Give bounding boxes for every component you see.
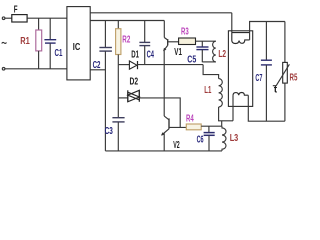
wire xyxy=(138,64,204,66)
wire node A xyxy=(118,64,129,66)
inductor L3 xyxy=(222,126,226,151)
resistor R4 xyxy=(186,124,201,130)
terminal input top xyxy=(2,17,5,20)
svg-text:R1: R1 xyxy=(20,36,30,47)
diode D2 diac xyxy=(128,90,140,102)
svg-text:D1: D1 xyxy=(131,49,139,60)
capacitor C4 xyxy=(139,21,150,65)
wire lamp bottom-left lead xyxy=(232,96,234,121)
svg-text:C6: C6 xyxy=(197,134,204,145)
thermistor R5 xyxy=(273,22,290,122)
capacitor C6 xyxy=(204,126,215,151)
wire C3 branch xyxy=(117,65,119,118)
svg-text:R4: R4 xyxy=(186,113,194,124)
svg-text:C1: C1 xyxy=(55,48,63,59)
wire rail1 top xyxy=(90,12,232,14)
wire xyxy=(201,125,222,127)
capacitor C7 xyxy=(261,22,272,122)
svg-text:L1: L1 xyxy=(204,85,211,96)
wire bottom rail xyxy=(105,150,222,152)
wire diac to V2 base xyxy=(139,98,180,128)
wire stair from node A to L1 xyxy=(203,65,219,79)
wire lamp bottom-right lead xyxy=(248,95,285,121)
svg-text:C7: C7 xyxy=(255,73,262,84)
resistor R1 xyxy=(36,18,42,69)
svg-text:L2: L2 xyxy=(218,49,226,60)
svg-text:L3: L3 xyxy=(230,133,239,144)
transistor Q1 V1 xyxy=(163,21,178,52)
lamp filament bottom xyxy=(233,93,248,96)
inductor L2 xyxy=(213,41,216,62)
svg-text:R2: R2 xyxy=(122,35,130,46)
wire xyxy=(5,68,67,70)
lamp tube xyxy=(228,31,252,107)
svg-text:F: F xyxy=(14,4,18,15)
inductor L1 xyxy=(219,79,223,107)
svg-text:C5: C5 xyxy=(187,55,196,66)
wire L1 bottom xyxy=(219,107,233,121)
lamp filament top xyxy=(232,33,250,44)
svg-text:C3: C3 xyxy=(105,126,114,137)
capacitor C3 xyxy=(112,118,124,151)
wire lamp top-right lead xyxy=(250,22,285,40)
wire xyxy=(196,40,216,42)
svg-text:D2: D2 xyxy=(130,77,139,88)
svg-text:R3: R3 xyxy=(181,26,189,37)
wire rail2 xyxy=(90,20,164,22)
svg-text:IC: IC xyxy=(73,42,81,53)
svg-text:R5: R5 xyxy=(290,73,298,84)
op-amp U1 : IC block xyxy=(67,7,90,80)
svg-text:V1: V1 xyxy=(174,47,182,58)
transistor Q2 V2 xyxy=(161,116,186,151)
fuse F xyxy=(12,15,27,22)
svg-text:V2: V2 xyxy=(173,140,180,151)
wire xyxy=(27,17,67,19)
wire bottom rail from IC xyxy=(90,69,105,71)
capacitor C1 xyxy=(44,18,56,69)
wire diac stub xyxy=(118,97,128,99)
wire midpoint vertical xyxy=(163,51,165,117)
wire to L3 node xyxy=(221,121,223,126)
label ~ xyxy=(2,42,7,43)
terminal input bottom xyxy=(2,68,5,71)
svg-text:C2: C2 xyxy=(93,60,101,71)
svg-text:C4: C4 xyxy=(147,49,155,60)
resistor R2 xyxy=(116,21,121,65)
diode D1 xyxy=(129,61,137,69)
svg-text:t: t xyxy=(274,85,278,96)
wire xyxy=(5,17,12,19)
wire lamp top-left lead xyxy=(231,13,233,33)
capacitor C5 xyxy=(196,41,215,62)
resistor R3 xyxy=(179,38,196,45)
capacitor C2 xyxy=(99,21,112,151)
